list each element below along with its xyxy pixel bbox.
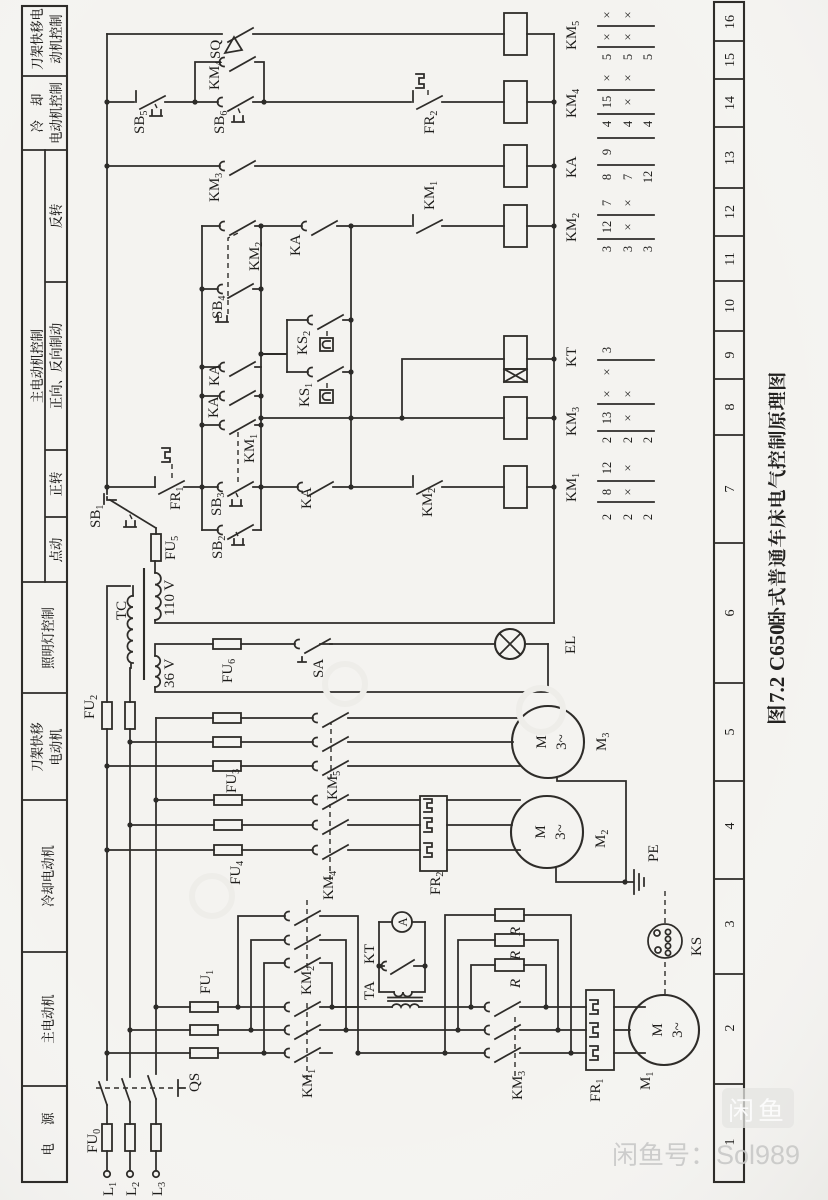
svg-text:KA: KA — [564, 156, 580, 178]
wire FR2 to M2 — [447, 800, 520, 850]
node 261 SB4 — [258, 286, 263, 291]
svg-text:×: × — [621, 33, 635, 40]
motor M2 — [511, 796, 611, 868]
node rail KA8 — [199, 393, 204, 398]
svg-text:5: 5 — [600, 54, 614, 60]
node cooling tap L3 — [153, 797, 158, 802]
lamp EL — [495, 629, 579, 659]
svg-text:M: M — [534, 735, 550, 748]
svg-text:TC: TC — [114, 601, 130, 620]
contactor aux KM2 (self hold) — [202, 221, 265, 271]
wire crossover feeds to KM2 — [238, 916, 285, 1053]
transformer TC core — [143, 568, 145, 680]
ground PE — [626, 844, 662, 894]
contactor KM4 main contacts — [313, 795, 421, 900]
contactor KM3 main contacts (short R) — [445, 1002, 571, 1100]
node 261 KS — [258, 351, 263, 356]
wire M2 M3 to PE — [556, 777, 626, 882]
svg-text:2: 2 — [641, 437, 655, 443]
coil KM1 — [504, 466, 582, 508]
node R2 loop bottom — [555, 1027, 560, 1032]
node R3 loop top — [468, 1004, 473, 1009]
node 351 KS1 — [348, 369, 353, 374]
svg-text:EL: EL — [563, 636, 579, 654]
wire control rail y=202 — [201, 226, 203, 530]
svg-text:7: 7 — [600, 200, 614, 206]
svg-text:4: 4 — [621, 120, 635, 127]
wire 110V return rail — [155, 620, 554, 623]
svg-text:3~: 3~ — [553, 824, 569, 840]
header sublabel 正转 — [49, 472, 62, 496]
node cooling tap L2 — [127, 822, 132, 827]
svg-text:×: × — [600, 74, 614, 81]
header label 冷却电动机控制 — [30, 83, 62, 143]
svg-text:5: 5 — [621, 54, 635, 60]
node 261 KM2 branch — [258, 223, 263, 228]
contactor aux KM3 (in KA branch) — [107, 161, 504, 202]
linkage dashes SB3-KM1 — [237, 430, 239, 482]
svg-text:A: A — [396, 917, 410, 926]
thermal contact FR1 (control, NC) — [107, 448, 202, 510]
coil KM5 — [504, 13, 582, 55]
svg-text:PE: PE — [646, 844, 662, 862]
node crossover top L1 — [261, 1050, 266, 1055]
svg-text:3: 3 — [600, 347, 614, 353]
svg-text:R: R — [508, 927, 524, 937]
header section dividers — [22, 76, 67, 1086]
wire 110V feed to FU5 — [154, 561, 156, 573]
wire FR1 to M1 — [614, 1007, 645, 1053]
current transformer TA — [362, 981, 422, 1007]
svg-text:KA: KA — [299, 487, 315, 509]
svg-text:6: 6 — [723, 610, 738, 617]
fuse FU0 (three) — [85, 1124, 161, 1153]
contactor interlock KM2 (NC, above KM1 coil) — [351, 476, 504, 517]
contactor aux KM4 (self hold) — [195, 57, 264, 102]
header sublabel 点动 — [49, 538, 62, 562]
crossref table KA — [598, 138, 655, 183]
wire KT coil feed — [402, 359, 504, 418]
svg-text:3: 3 — [600, 246, 614, 252]
resistor R (phase 1 bypass) — [445, 909, 571, 1053]
node feed KM4 branch — [104, 99, 109, 104]
node rail KA9 — [199, 364, 204, 369]
svg-text:3~: 3~ — [670, 1022, 686, 1038]
terminal L2 — [124, 1171, 142, 1196]
svg-text:M: M — [650, 1023, 666, 1036]
node rail554 KM3 — [551, 415, 556, 420]
svg-text:3: 3 — [641, 246, 655, 252]
svg-text:7: 7 — [723, 486, 738, 493]
pushbutton SB6 (cooling start, NO) — [195, 97, 264, 134]
svg-text:3: 3 — [723, 921, 738, 928]
node 261 KM3 feed — [258, 415, 263, 420]
svg-text:10: 10 — [723, 299, 738, 313]
node 261 KA8 — [258, 393, 263, 398]
pushbutton SB1 (stop, NC) — [88, 494, 156, 534]
node rail SB4 — [199, 286, 204, 291]
crossref table KM2 — [598, 199, 655, 252]
node SB6 top — [192, 99, 197, 104]
svg-text:3~: 3~ — [554, 734, 570, 750]
zone numbers 1-16 — [723, 15, 738, 1146]
switch SA — [295, 639, 333, 678]
transformer TC secondary 36V — [155, 656, 178, 688]
svg-text:C650: C650 — [765, 624, 789, 671]
relay contact KA (zone 9) — [202, 362, 261, 386]
svg-text:8: 8 — [723, 404, 738, 411]
node rail554 KM2 — [551, 223, 556, 228]
wire to FR1 — [546, 1007, 586, 1053]
svg-text:×: × — [621, 390, 635, 397]
node R1 loop bottom — [568, 1050, 573, 1055]
svg-text:12: 12 — [641, 171, 655, 184]
node 351 left — [348, 484, 353, 489]
pushbutton SB3 (forward start, NO) — [202, 482, 261, 516]
svg-text:2: 2 — [600, 514, 614, 520]
svg-text:2: 2 — [723, 1025, 738, 1032]
linkage dashes KM1 KM2 — [306, 900, 308, 1080]
wire 36V return rail — [155, 644, 548, 692]
header label 主电动机控制 — [30, 330, 43, 403]
node rapid tap L2 — [127, 739, 132, 744]
motor M3 — [512, 706, 612, 778]
speed relay contacts KS1 KS2 block — [261, 315, 351, 407]
svg-text:KA: KA — [207, 364, 223, 386]
node merge L1 — [355, 1050, 360, 1055]
node SB6 bottom — [261, 99, 266, 104]
node 261 KM1aux — [258, 422, 263, 427]
svg-text:KS: KS — [689, 937, 705, 956]
svg-text:8: 8 — [600, 174, 614, 180]
svg-text:9: 9 — [723, 352, 738, 359]
contactor aux KM1 (self hold) — [202, 420, 261, 463]
pushbutton SB4 (reverse start, NO) — [202, 270, 261, 322]
svg-text:R: R — [508, 979, 524, 989]
fuse FU4 (three) — [214, 795, 246, 885]
svg-text:×: × — [621, 11, 635, 18]
figure title 图7.2 C650卧式普通车床电气控制原理图 — [765, 373, 789, 723]
svg-text:7: 7 — [621, 174, 635, 180]
wire merged drops down — [332, 1007, 458, 1053]
wire node line y=261 — [260, 226, 262, 530]
crossref table KM1 — [598, 462, 655, 520]
header label 刀架快移电动机 — [30, 723, 62, 772]
relay contact KA (zone 7, in KM1 branch) — [261, 482, 351, 509]
contactor interlock KM1 (NC, above KM2 coil) — [351, 181, 504, 233]
svg-text:SQ: SQ — [208, 40, 224, 59]
relay contact KT (ammeter shunt) — [362, 944, 425, 974]
node rail FR1 — [199, 484, 204, 489]
svg-text:2: 2 — [600, 437, 614, 443]
svg-text:12: 12 — [600, 221, 614, 234]
svg-text:KA: KA — [206, 396, 222, 418]
wire KM3 coil feed — [261, 417, 504, 419]
node 351 KS2 — [348, 317, 353, 322]
svg-text:13: 13 — [723, 151, 738, 165]
header label 照明灯控制 — [41, 608, 54, 668]
wire 36V to lamp branch — [155, 644, 495, 656]
node L3 tap main — [153, 1004, 158, 1009]
wire cooling drops — [107, 800, 214, 850]
relay contact KA (zone 12, in KM2 branch) — [261, 221, 351, 256]
limit switch SQ (rapid traverse) — [107, 28, 504, 59]
contactor KM1 main contacts — [285, 1002, 359, 1098]
node KT bridge top — [376, 963, 381, 968]
wire L1 bus y=107 — [107, 586, 130, 1171]
fuse FU2 (two, control transformer) — [82, 695, 135, 729]
node feed at FR1 drop — [104, 484, 109, 489]
svg-text:5: 5 — [641, 54, 655, 60]
pushbutton SB5 (cooling stop, NC) — [107, 91, 195, 134]
header label 刀架快移电动机控制 — [30, 9, 62, 70]
node rail554 KM4 — [551, 99, 556, 104]
node rail554 KM1 — [551, 484, 556, 489]
transformer TC primary — [114, 586, 133, 668]
svg-text:13: 13 — [600, 412, 614, 425]
node L2 tap main — [127, 1027, 132, 1032]
contactor KM5 main contacts — [313, 713, 521, 800]
node crossover top L3 — [235, 1004, 240, 1009]
coil KT (time relay) — [504, 336, 580, 382]
node R1 loop top — [442, 1050, 447, 1055]
svg-text:12: 12 — [600, 462, 614, 475]
svg-text:8: 8 — [600, 489, 614, 495]
header strip outer box — [22, 6, 67, 1182]
wire L2 bus y=130 — [129, 668, 131, 1171]
resistor R (phase 2 bypass) — [458, 934, 558, 1030]
fuse FU6 — [213, 639, 241, 683]
node 351 right — [348, 223, 353, 228]
svg-text:4: 4 — [723, 823, 738, 830]
header sublabel 反转 — [49, 204, 62, 228]
zone number strip — [714, 2, 744, 1182]
relay contact KA (zone 8) — [202, 391, 261, 418]
svg-text:KA: KA — [288, 234, 304, 256]
wire L3 bus y=156 — [155, 718, 157, 1171]
svg-text:110 V: 110 V — [162, 580, 178, 616]
svg-text:×: × — [600, 390, 614, 397]
svg-text:×: × — [621, 488, 635, 495]
speed relay KS — [648, 890, 705, 994]
wire FU3 to KM5 — [241, 718, 313, 766]
svg-text:12: 12 — [723, 205, 738, 219]
crossref table KM4 — [598, 74, 655, 127]
wire rapid drops — [107, 718, 213, 766]
header label 冷却电动机 — [41, 846, 54, 907]
svg-text:Sol989: Sol989 — [716, 1140, 800, 1170]
wire main drops to FU1 — [107, 1007, 190, 1053]
terminal L3 — [150, 1171, 168, 1196]
wire TA to R zone — [419, 1006, 471, 1008]
crossref table KM3 — [598, 390, 655, 443]
watermark rings — [192, 664, 563, 916]
wire control feed rail y=107 — [106, 34, 108, 494]
transformer TC secondary 110V — [155, 573, 178, 620]
ammeter A — [379, 912, 425, 932]
thermal contact FR2 (control, NC) — [264, 74, 504, 134]
svg-text:×: × — [621, 199, 635, 206]
svg-text:16: 16 — [723, 15, 738, 29]
svg-text:2: 2 — [621, 437, 635, 443]
svg-text:QS: QS — [187, 1073, 203, 1092]
svg-text:7.2: 7.2 — [765, 677, 789, 703]
svg-text:KT: KT — [564, 347, 580, 367]
svg-text:×: × — [621, 414, 635, 421]
node KT bridge bottom — [422, 963, 427, 968]
svg-text:4: 4 — [641, 120, 655, 127]
node cooling tap L1 — [104, 847, 109, 852]
svg-text:×: × — [600, 33, 614, 40]
wire TA secondary loop — [379, 922, 425, 992]
pushbutton SB2 (jog, NO) — [202, 525, 261, 559]
svg-text:4: 4 — [600, 120, 614, 127]
svg-text:×: × — [600, 11, 614, 18]
contactor KM2 main contacts (reversing) — [285, 911, 359, 1054]
svg-text:3: 3 — [621, 246, 635, 252]
terminal L1 — [101, 1171, 119, 1196]
svg-text:5: 5 — [723, 729, 738, 736]
node rail KM1 aux — [199, 422, 204, 427]
node rail554 KT — [551, 356, 556, 361]
svg-text:KT: KT — [362, 944, 378, 964]
fuse FU1 (three) — [190, 970, 218, 1058]
node PE junction — [622, 879, 627, 884]
svg-text:×: × — [621, 98, 635, 105]
wire FU1 to KM1 contacts — [218, 1007, 285, 1053]
wire control bottom rail y=554 — [553, 34, 555, 623]
node 261 SB3 — [258, 484, 263, 489]
thermal relay FR2 heaters — [420, 796, 447, 895]
fuse FU5 — [151, 534, 181, 561]
node KT tap — [399, 415, 404, 420]
node merge L2 — [343, 1027, 348, 1032]
svg-text:36 V: 36 V — [162, 659, 178, 688]
crossref table KT — [598, 347, 654, 376]
svg-text:×: × — [621, 464, 635, 471]
wire node line y=351 — [350, 226, 352, 487]
node 351 KM3 feed cross — [348, 415, 353, 420]
motor M1 — [629, 995, 699, 1090]
crossref table KM5 — [598, 11, 655, 60]
node rapid tap L1 — [104, 763, 109, 768]
node merge L3 — [329, 1004, 334, 1009]
svg-text:9: 9 — [600, 149, 614, 155]
node R2 loop top — [455, 1027, 460, 1032]
svg-text:×: × — [621, 74, 635, 81]
svg-text:TA: TA — [362, 981, 378, 1000]
coil KM4 — [504, 81, 582, 123]
node R3 loop bottom — [543, 1004, 548, 1009]
svg-text:15: 15 — [723, 53, 738, 67]
resistor R (phase 3 bypass) — [471, 959, 546, 1007]
linkage dashes KM3 — [514, 1014, 516, 1076]
header label 电源 — [41, 1113, 54, 1154]
coil KM2 — [504, 205, 582, 247]
svg-text:2: 2 — [641, 514, 655, 520]
svg-text:2: 2 — [621, 514, 635, 520]
svg-text:M: M — [533, 825, 549, 838]
node rail554 KA — [551, 163, 556, 168]
thermal relay FR1 heaters — [586, 990, 614, 1102]
wire FU4 to KM4 — [242, 800, 313, 850]
node crossover top L2 — [248, 1027, 253, 1032]
svg-text:15: 15 — [600, 96, 614, 109]
svg-text:×: × — [600, 368, 614, 375]
node L1 tap main — [104, 1050, 109, 1055]
coil KA — [504, 145, 580, 187]
header sublabel 正向、反向制动 — [49, 323, 62, 408]
node feed KA branch — [104, 163, 109, 168]
fuse FU3 (three) — [213, 713, 242, 793]
svg-text:11: 11 — [723, 252, 738, 265]
switch QS (three blades) — [96, 1073, 203, 1105]
header label 主电动机 — [41, 995, 54, 1043]
coil KM3 — [504, 397, 582, 439]
svg-text:×: × — [621, 223, 635, 230]
svg-text:14: 14 — [723, 96, 738, 110]
